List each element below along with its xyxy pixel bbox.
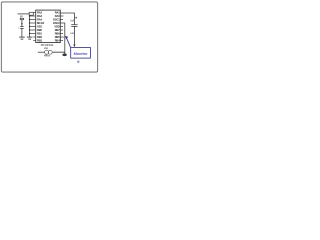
- svg-text:RB4: RB4: [55, 38, 61, 42]
- ground (sounder junction): [63, 52, 67, 55]
- node 5V label: [20, 16, 23, 18]
- svg-text:RB2: RB2: [37, 35, 43, 39]
- value label below LS1: [44, 55, 51, 58]
- value label PIC16F84A: [41, 44, 54, 47]
- wire right pin stubs: [60, 16, 64, 41]
- wire RB5 to monitor (arrow): [67, 38, 71, 47]
- IC U1 PIC16F84A: [36, 10, 61, 42]
- wire supply: [18, 13, 30, 15]
- capacitor C1: [20, 27, 23, 29]
- wire RA1 to capacitor: [60, 13, 74, 24]
- wire OSC2 to sounder: [38, 23, 65, 52]
- svg-text:PIC16F84A: PIC16F84A: [41, 44, 54, 47]
- svg-text:RB7: RB7: [55, 28, 61, 32]
- value label above LS1: [44, 47, 48, 50]
- ground (left branch bottom): [19, 37, 25, 39]
- transducer LS1: [45, 50, 53, 54]
- resistor R1: [29, 12, 33, 15]
- capacitor C2: [71, 25, 77, 27]
- value label capacitor: [70, 21, 75, 23]
- svg-text:MCLR: MCLR: [37, 21, 44, 25]
- wire left pin stubs: [30, 13, 36, 41]
- svg-text:RA3: RA3: [37, 14, 43, 18]
- ground (below monitor): [77, 61, 80, 62]
- value label near RB5 arrow: [70, 32, 74, 35]
- svg-text:4MHz: 4MHz: [44, 55, 51, 58]
- resistor R2: [20, 18, 23, 19]
- svg-text:RA4: RA4: [37, 17, 43, 21]
- monitor box: [71, 48, 91, 59]
- node junction dots on bus: [29, 15, 30, 34]
- svg-text:RB0: RB0: [37, 28, 43, 32]
- svg-text:RB5: RB5: [55, 35, 61, 39]
- svg-text:VSS: VSS: [37, 24, 42, 28]
- svg-text:1uF: 1uF: [70, 21, 75, 23]
- node junction on left branch: [21, 23, 23, 25]
- ground (bus bottom): [27, 37, 33, 39]
- pin labels left: [37, 10, 44, 42]
- svg-text:RA1: RA1: [55, 10, 61, 14]
- wire bus left: [29, 15, 31, 37]
- svg-text:RB6: RB6: [55, 31, 61, 35]
- svg-text:OSC1: OSC1: [53, 17, 60, 21]
- svg-text:OSC2: OSC2: [53, 21, 60, 25]
- svg-text:RB1: RB1: [37, 31, 43, 35]
- svg-text:xtal: xtal: [44, 47, 48, 50]
- svg-text:out: out: [70, 32, 74, 35]
- wire left branch vertical: [21, 20, 23, 37]
- wire capacitor to monitor with arrow: [73, 26, 75, 44]
- svg-text:Monitor: Monitor: [74, 52, 88, 56]
- svg-text:RA0: RA0: [55, 14, 61, 18]
- svg-text:RB3: RB3: [37, 38, 43, 42]
- svg-text:VDD: VDD: [54, 24, 59, 28]
- node plus polarity: [75, 17, 77, 19]
- svg-text:RA2: RA2: [37, 10, 43, 14]
- value label C1: [18, 27, 20, 29]
- pin labels right: [53, 10, 60, 42]
